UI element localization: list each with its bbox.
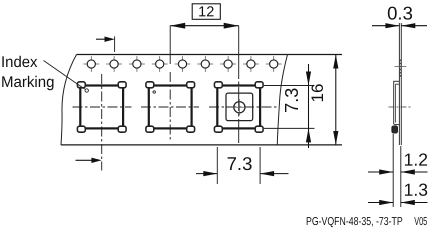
dimension 0.3 : tape thickness bbox=[372, 25, 399, 27]
svg-text:PG-VQFN-48-35, -73-TP: PG-VQFN-48-35, -73-TP bbox=[306, 216, 403, 228]
sprocket hole centre tick in section bbox=[395, 66, 407, 68]
dimension 12 : pocket pitch bbox=[170, 25, 239, 27]
extension line pocket 3 centre bbox=[238, 26, 240, 55]
svg-text:Index: Index bbox=[1, 54, 38, 71]
svg-text:12: 12 bbox=[198, 4, 214, 20]
dimension 7.3 : pocket height (right, vertical) bbox=[308, 64, 310, 148]
pocket 3 outline bbox=[217, 86, 260, 129]
pocket 3 centrelines bbox=[209, 55, 277, 145]
feed direction arrow (bottom) bbox=[76, 159, 92, 161]
package body in pocket 3 bbox=[226, 93, 253, 121]
sprocket hole hidden edges in section bbox=[399, 60, 401, 79]
pocket 1 corner ears bbox=[77, 82, 126, 132]
sprocket hole centre ticks bbox=[83, 56, 281, 72]
sprocket holes bbox=[87, 60, 278, 68]
tape section rear surface bbox=[400, 23, 402, 145]
section pocket centreline bbox=[389, 106, 412, 108]
svg-text:7.3: 7.3 bbox=[282, 88, 302, 113]
index marking leader line bbox=[44, 61, 85, 90]
pocket emboss: top flange bbox=[393, 80, 399, 82]
tape right break line bbox=[277, 55, 287, 146]
pocket 2 corner ears bbox=[146, 82, 195, 132]
svg-text:0.3: 0.3 bbox=[387, 2, 413, 23]
tape section front surface bbox=[398, 23, 400, 145]
svg-text:16: 16 bbox=[308, 84, 327, 103]
feed direction arrow (top) bbox=[96, 38, 107, 40]
svg-text:1.3: 1.3 bbox=[404, 180, 428, 200]
pocket 1 centrelines bbox=[73, 74, 132, 171]
svg-text:V05: V05 bbox=[414, 216, 427, 228]
svg-text:7.3: 7.3 bbox=[227, 153, 253, 174]
svg-text:Marking: Marking bbox=[1, 74, 55, 91]
dimension 16 : tape width (right, vertical) bbox=[335, 55, 337, 146]
extension lines pocket 3 sides bbox=[216, 147, 218, 184]
carrier tape top edge (with extension to 16 dim) bbox=[77, 54, 343, 56]
top arrow reference line (sprocket hole 2 centreline) bbox=[114, 36, 116, 52]
dimension 7.3 : pocket width (bottom) bbox=[196, 173, 217, 175]
pocket emboss: left wall (double line) bbox=[393, 81, 395, 124]
pocket 3 corner ears bbox=[214, 82, 263, 132]
svg-text:1.2: 1.2 bbox=[404, 150, 428, 170]
extension line pocket 2 centre bbox=[169, 26, 171, 64]
pocket 2 outline bbox=[149, 86, 192, 129]
dimension 1.3 : total thickness bbox=[368, 202, 393, 204]
pocket 1 index-mark circle (leader target) bbox=[85, 89, 88, 92]
carrier tape bottom edge (with extension to 16 dim) bbox=[61, 144, 342, 146]
dimension 1.2 : pocket depth bbox=[368, 171, 393, 173]
pocket emboss: bottom foot bbox=[392, 126, 398, 133]
extension lines pocket 3 top/bottom bbox=[264, 85, 315, 87]
pocket 2 centrelines bbox=[141, 72, 199, 140]
package centre circle bbox=[234, 102, 245, 113]
pocket 2 index-mark dot bbox=[153, 91, 155, 93]
package circle centre ticks bbox=[231, 106, 247, 108]
extension lines for 1.2 / 1.3 bbox=[392, 134, 394, 207]
pocket 1 outline bbox=[80, 86, 123, 129]
tape left break line bbox=[61, 55, 77, 146]
boxed label 12 bbox=[192, 4, 220, 19]
